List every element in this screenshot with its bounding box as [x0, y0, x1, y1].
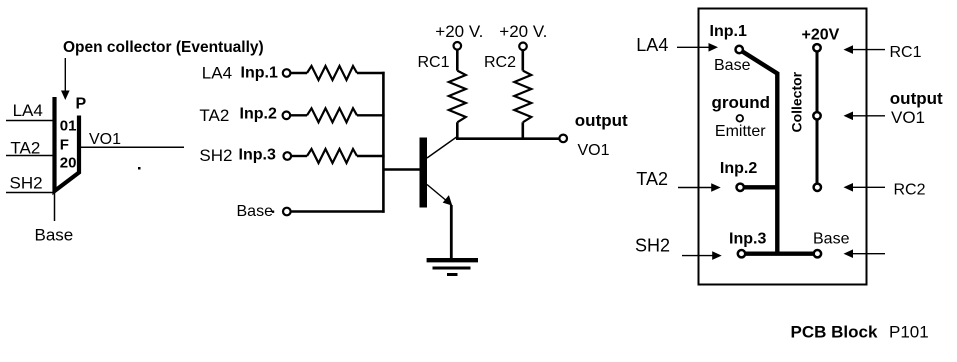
wire Base to bus	[291, 210, 385, 213]
wire TA2 pin	[6, 155, 54, 157]
wire RC2 to output line	[521, 122, 524, 140]
svg-text:TA2: TA2	[10, 139, 40, 158]
wire collector output line	[456, 137, 559, 140]
svg-text:PCB Block: PCB Block	[791, 322, 878, 341]
svg-text:Inp.2: Inp.2	[720, 160, 757, 177]
arrow Base into pcb	[844, 249, 886, 258]
svg-text:VO1: VO1	[891, 108, 925, 127]
svg-text:Base: Base	[813, 230, 850, 247]
pad collector VO1 tap	[813, 112, 820, 119]
svg-text:Inp.3: Inp.3	[239, 146, 276, 163]
trace Inp.3 to Base pad	[742, 251, 818, 255]
svg-text:VO1: VO1	[89, 131, 121, 148]
svg-text:LA4: LA4	[202, 64, 232, 83]
arrow RC1 into pcb	[844, 45, 886, 54]
svg-text:+20V: +20V	[802, 26, 840, 43]
IC U1 body	[55, 97, 80, 191]
svg-text:RC1: RC1	[890, 44, 922, 61]
transistor Q1 emitter lead with arrow	[427, 185, 452, 206]
svg-text:output: output	[890, 89, 943, 108]
pad Inp.2	[737, 184, 744, 191]
pad Emitter	[737, 115, 744, 122]
svg-text:Inp.1: Inp.1	[710, 23, 747, 40]
svg-text:Inp.3: Inp.3	[729, 230, 766, 247]
svg-text:RC2: RC2	[484, 54, 516, 71]
wire RC1 to output line	[456, 122, 459, 140]
wire bus to Q1 base	[383, 168, 419, 170]
svg-text:+20 V.: +20 V.	[499, 22, 547, 41]
arrow output VO1 into pcb	[844, 112, 886, 121]
PCB block outline	[699, 9, 867, 285]
wire R3 to bus	[357, 155, 385, 157]
pad +20V	[813, 44, 820, 51]
wire +20V to RC1	[456, 50, 459, 71]
svg-text:LA4: LA4	[13, 101, 43, 120]
wire +20V to RC2	[521, 51, 524, 71]
bus node wire	[382, 72, 385, 213]
trace Inp.2 to bus	[740, 185, 777, 189]
arrow RC2 into pcb	[844, 183, 886, 192]
svg-text:ground: ground	[712, 93, 771, 112]
svg-text:VO1: VO1	[578, 142, 610, 159]
svg-text:Emitter: Emitter	[715, 123, 766, 140]
svg-text:Base: Base	[237, 203, 274, 220]
svg-text:Collector: Collector	[789, 71, 805, 132]
svg-text:Base: Base	[714, 57, 751, 74]
wire Inp.2 to R2	[291, 114, 307, 116]
terminal Inp.1	[283, 69, 291, 77]
arrow from note to IC pin P	[61, 58, 70, 100]
svg-text:P: P	[76, 96, 87, 113]
resistor RC2	[514, 71, 531, 123]
svg-text:output: output	[575, 111, 628, 130]
trace +20V collector rail	[816, 48, 819, 188]
transistor Q1 base bar	[420, 138, 428, 208]
terminal Inp.3	[284, 152, 292, 160]
transistor Q1 collector lead	[427, 137, 457, 159]
terminal Base	[283, 208, 291, 216]
wire Inp.1 to R1	[291, 72, 307, 74]
resistor R2	[307, 108, 357, 122]
pad Inp.1	[736, 46, 743, 53]
resistor R3	[307, 149, 357, 163]
resistor R1	[307, 66, 357, 80]
svg-text:+20 V.: +20 V.	[435, 22, 483, 41]
stray dot	[138, 167, 141, 170]
wire SH2 pin	[6, 192, 54, 194]
wire R1 to bus	[357, 72, 385, 74]
svg-text:01: 01	[60, 117, 77, 134]
wire Inp.3 to R3	[292, 155, 308, 157]
terminal +20V RC1	[454, 42, 462, 50]
svg-text:SH2: SH2	[635, 236, 670, 256]
svg-text:SH2: SH2	[10, 173, 43, 192]
wire Base stub	[54, 191, 56, 221]
svg-text:SH2: SH2	[199, 146, 232, 165]
svg-text:F: F	[60, 136, 69, 153]
svg-text:TA2: TA2	[636, 169, 668, 189]
ground	[427, 260, 478, 274]
svg-text:RC1: RC1	[418, 54, 450, 71]
svg-text:LA4: LA4	[636, 35, 668, 55]
svg-text:Inp.2: Inp.2	[240, 106, 277, 123]
svg-text:Base: Base	[35, 225, 74, 244]
resistor RC1	[449, 71, 466, 123]
svg-text:P101: P101	[889, 322, 929, 341]
arrow LA4 into pcb	[677, 43, 718, 52]
svg-text:RC2: RC2	[894, 181, 926, 198]
pad RC2 end	[814, 184, 821, 191]
wire LA4 pin	[6, 120, 54, 122]
pad Base	[814, 250, 821, 257]
svg-text:20: 20	[60, 155, 77, 172]
wire emitter to ground	[450, 205, 453, 260]
svg-text:Open collector (Eventually): Open collector (Eventually)	[63, 39, 264, 56]
terminal output VO1	[559, 135, 567, 143]
pad Inp.3	[738, 250, 745, 257]
terminal +20V RC2	[519, 43, 527, 51]
wire VO1 output pin	[81, 146, 184, 148]
arrow SH2 into pcb	[682, 251, 722, 260]
terminal Inp.2	[283, 112, 291, 120]
svg-text:Inp.1: Inp.1	[241, 65, 278, 82]
trace Inp.1 to collector bus	[739, 50, 777, 254]
svg-text:TA2: TA2	[199, 106, 229, 125]
arrow TA2 into pcb	[678, 183, 721, 192]
wire R2 to bus	[357, 114, 385, 116]
